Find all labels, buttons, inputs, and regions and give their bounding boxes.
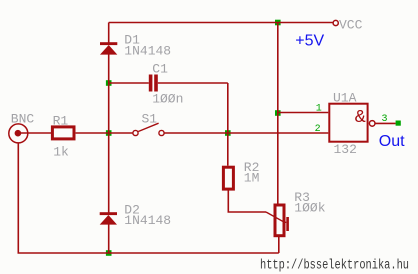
potentiometer R3 body <box>275 205 284 236</box>
node junction C1 branch <box>106 80 112 86</box>
svg-text:1k: 1k <box>53 144 69 159</box>
wire vertical left column (D1/D2 string) <box>108 23 110 254</box>
node Out endpoint <box>396 121 401 126</box>
diode D1 <box>100 42 117 54</box>
switch S1 <box>133 123 164 135</box>
node junction bottom/D2 <box>106 250 112 256</box>
node junction main/diodes <box>106 130 112 136</box>
power port VCC open circle <box>333 20 338 25</box>
node junction top (VCC rail / U1 branch) <box>275 20 281 26</box>
wire BNC to R1 <box>18 132 51 134</box>
svg-text:1ØØk: 1ØØk <box>294 200 325 215</box>
wire BNC ground return (left and bottom) <box>18 143 279 253</box>
wire S1 to U1A pin 2 <box>164 132 328 134</box>
svg-text:132: 132 <box>334 142 357 157</box>
svg-text:Out: Out <box>379 133 405 150</box>
U1A output inversion bubble <box>369 121 375 127</box>
node junction pin1 branch <box>275 110 281 116</box>
svg-text:R1: R1 <box>53 114 69 129</box>
potentiometer R3 wiper <box>266 212 289 231</box>
wire top rail to VCC <box>109 22 334 24</box>
wire vertical +5V branch to R3 <box>277 23 279 204</box>
svg-text:U1A: U1A <box>333 91 357 106</box>
svg-text:BNC: BNC <box>11 111 35 126</box>
wire R1 to S1 <box>76 132 133 134</box>
svg-text:S1: S1 <box>142 112 158 127</box>
gate U1A (74132 NAND) box <box>329 104 367 142</box>
resistor R2 <box>223 167 233 189</box>
wire pin 3 output <box>375 122 396 124</box>
svg-text:&: & <box>355 107 366 128</box>
svg-text:http://bsselektronika.hu: http://bsselektronika.hu <box>260 258 409 274</box>
svg-text:C1: C1 <box>152 61 168 76</box>
wire C1 branch <box>109 83 228 133</box>
svg-text:1M: 1M <box>244 170 260 185</box>
svg-text:1: 1 <box>316 104 322 115</box>
capacitor C1 <box>149 75 158 92</box>
resistor R1 <box>52 127 74 139</box>
wire to U1A pin 1 <box>278 112 329 114</box>
svg-text:1N4148: 1N4148 <box>124 43 171 58</box>
svg-text:1N4148: 1N4148 <box>124 213 171 228</box>
diode D2 <box>100 212 117 224</box>
node junction S1/R2 <box>225 130 231 136</box>
connector BNC <box>9 124 28 143</box>
svg-text:+5V: +5V <box>295 32 324 49</box>
wire R3 bottom lead <box>278 237 280 253</box>
wire R2 top lead <box>227 133 229 166</box>
svg-text:VCC: VCC <box>339 18 363 33</box>
svg-text:2: 2 <box>315 124 321 135</box>
wire R2 bottom to wiper <box>228 191 266 213</box>
svg-text:1ØØn: 1ØØn <box>152 92 183 107</box>
